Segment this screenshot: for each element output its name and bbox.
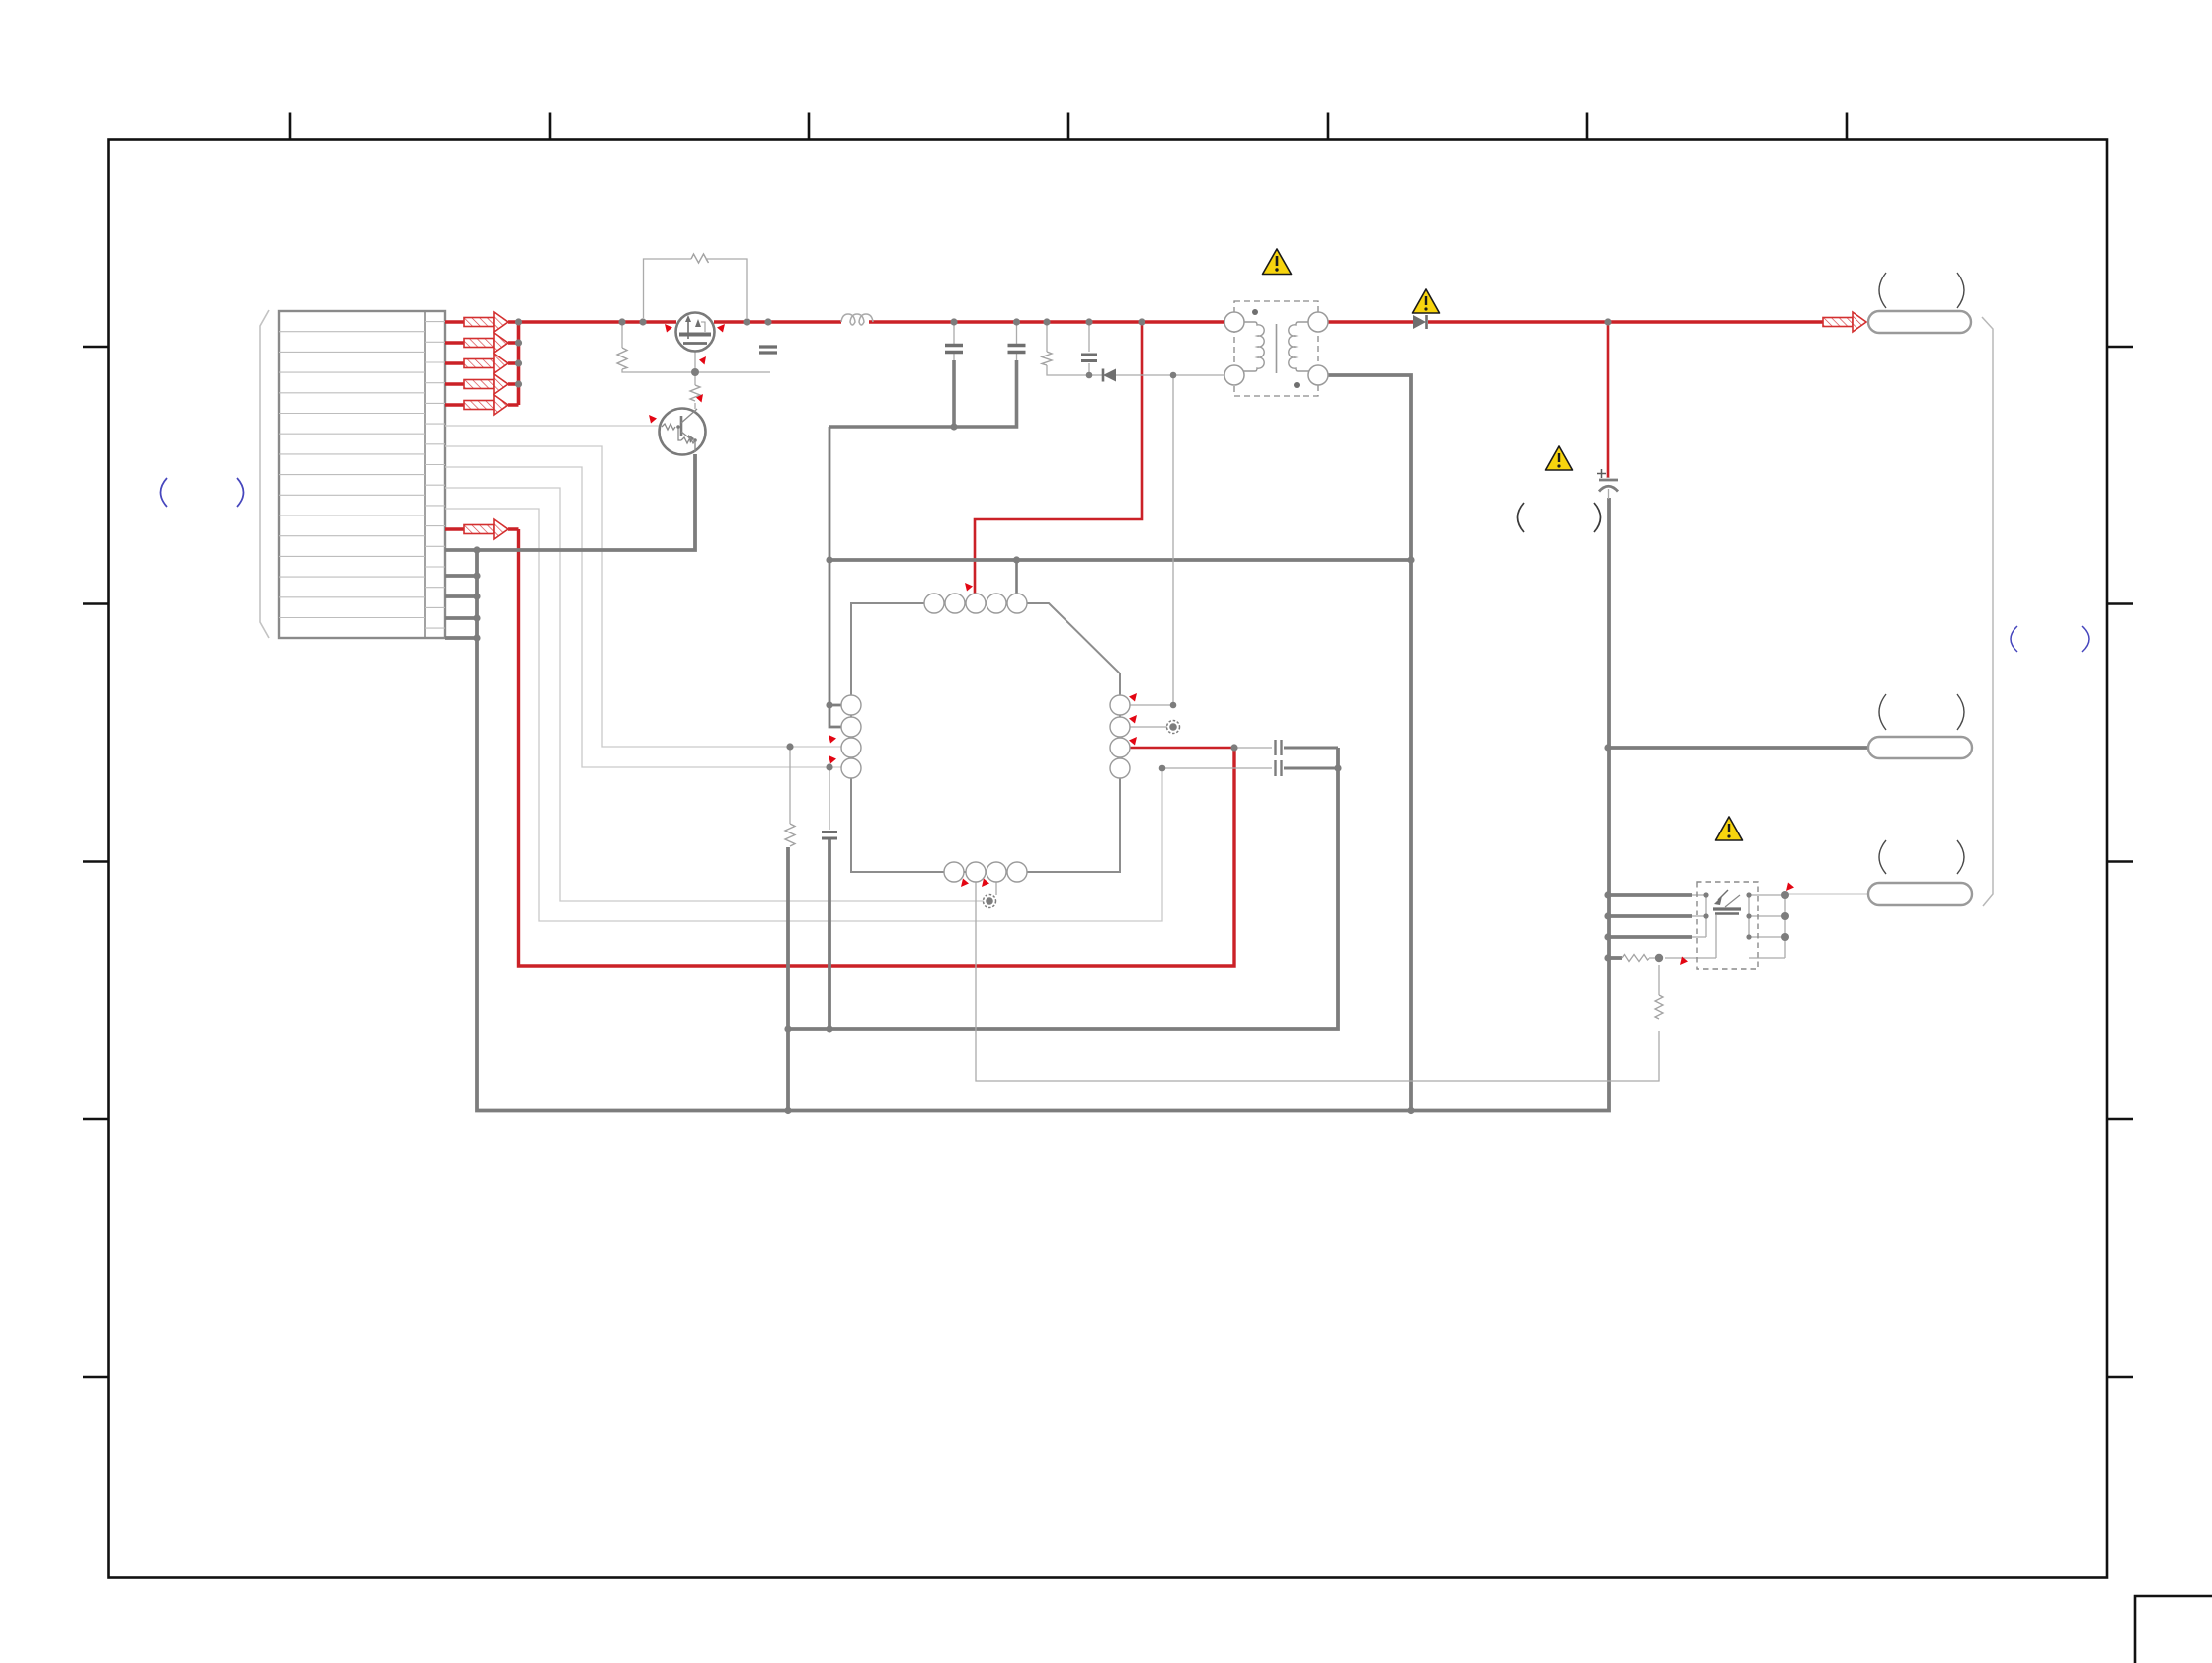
diode D output [1413, 315, 1427, 329]
resistor R top loop [691, 254, 709, 263]
wire: IC out caps row4 [1162, 767, 1272, 769]
red hatched arrow at output pill1 [1823, 312, 1866, 332]
wire: left IC feed vertical [829, 427, 841, 727]
optocoupler U2 [1697, 882, 1758, 969]
resistor R gate pull-down left [617, 348, 627, 369]
wire: opto input stubs [1608, 895, 1692, 937]
wire: IC out caps row3 [1234, 747, 1272, 749]
wire: red bottom feedback loop [519, 529, 1235, 966]
wire: clamp cap leads [1088, 324, 1090, 375]
wire: transformer secondary return vertical [1328, 375, 1411, 1111]
output pill terminal 1 [1868, 311, 1971, 333]
gray signal fan-out from connector [445, 426, 1162, 921]
resistor R opto lower [1655, 995, 1663, 1019]
wire: red IC right pin3 link [1130, 747, 1234, 750]
tick marks top border [290, 113, 1847, 140]
capacitor C out row3 [1276, 740, 1282, 755]
wire: red branch to IC top pin [975, 322, 1142, 594]
wire: row to test point [445, 488, 984, 901]
warning triangle near transformer [1263, 249, 1292, 275]
wire: opto lower resistor leads [1658, 965, 1660, 995]
wire: red branch to output cap [1607, 322, 1610, 478]
capacitor C in1 [945, 346, 963, 353]
connector pin column divider [424, 311, 426, 638]
warning triangle near optocoupler [1716, 817, 1743, 840]
inductor L1 [841, 314, 873, 325]
wire: connector row to transistor emitter [445, 454, 695, 550]
wire: snubber resistor lower lead [786, 847, 790, 1111]
wire: gate node line [622, 324, 770, 409]
connector body [279, 311, 445, 638]
transistor Q2 digital [660, 409, 706, 455]
wire: IC left pin1 stub [829, 704, 841, 707]
red power rail net [445, 322, 1829, 966]
wire: opto resistor link [1649, 957, 1716, 959]
tick marks right border [2107, 347, 2133, 1377]
wire: opto resistor stub [1608, 956, 1622, 960]
dark ground distribution net [445, 360, 1868, 1111]
output pill terminal 3 [1868, 883, 1972, 905]
wire: main red rail segments [519, 320, 677, 324]
arc pair above pill3 [1879, 840, 1964, 874]
wire: input cap1 leads [953, 324, 955, 360]
capacitor C in2 [1008, 346, 1026, 353]
capacitor C clamp [1081, 355, 1097, 361]
connector left guide bracket [260, 310, 269, 638]
connector row dividers right column [425, 322, 445, 628]
MOSFET Q1 [676, 313, 715, 352]
resistor R opto series [1622, 955, 1649, 962]
title block corner box bottom-right [2135, 1596, 2212, 1663]
wire: connector ground stubs [445, 576, 477, 638]
red hatched arrow row 6 [464, 519, 508, 539]
wire: ground bus down left [477, 498, 1609, 1111]
connector J1 [260, 310, 445, 638]
wire: red low-side pin row [445, 527, 519, 530]
red hatched arrows rows 1-5 [464, 312, 1866, 539]
IC U1 pin circles [841, 594, 1130, 882]
transformer T1 [1224, 301, 1328, 396]
wire: snubber cap lower lead [828, 839, 831, 1029]
arc pair above pill2 [1879, 694, 1964, 730]
wire: output pill2 feed [1608, 746, 1868, 750]
border frame [109, 140, 2108, 1578]
wire: input cap ground link [829, 360, 1017, 427]
wire: IC bottom pin2 long sense [976, 882, 1659, 1081]
diode D clamp left-pointing [1103, 369, 1116, 382]
wire: input cap1 lower lead [952, 360, 956, 427]
warning triangle near output diode [1413, 289, 1440, 313]
wire: opto to pill3 [1785, 893, 1868, 895]
wire: primary auxiliary vertical [1130, 375, 1173, 705]
output pill terminal 2 [1868, 737, 1972, 758]
blue parenthesis pair [2011, 626, 2089, 652]
warning triangle near output cap [1546, 446, 1573, 470]
wire: IC bottom pin3 stub [995, 882, 997, 895]
wire: row to transistor base [445, 425, 660, 427]
wire: input cap2 leads [1016, 324, 1018, 360]
red pin flag markers [649, 324, 1794, 965]
capacitor C gate [759, 347, 777, 353]
wire: row to IC right pin4 net [445, 509, 1162, 921]
wire: opto pins thin links [1692, 895, 1706, 937]
arc pair above pill1 [1879, 273, 1964, 308]
resistor R clamp [1042, 352, 1052, 365]
right big bracket [1982, 317, 1993, 906]
wire: opto emitter return [1715, 915, 1717, 958]
IC U1 controller outline [851, 603, 1120, 872]
capacitor C snubber [822, 832, 837, 839]
thin sense lines [622, 259, 1993, 1081]
capacitor C out row4 [1276, 760, 1282, 776]
wire: IC right pin2 to target [1130, 726, 1167, 728]
wire: snubber leads upper [790, 747, 829, 830]
wire: out caps right stubs [1284, 748, 1338, 768]
wire: mid ground rail [788, 748, 1338, 1029]
tick marks left border [83, 347, 108, 1377]
resistor R snubber [785, 824, 795, 846]
test point target right [1167, 721, 1180, 734]
polarized capacitor C out [1597, 469, 1618, 499]
test point target bottom [984, 895, 996, 908]
wire: IC top pin5 stub [1015, 560, 1018, 594]
wire: red arrow tails to bus [508, 322, 519, 405]
wire: IC top bus [829, 558, 1411, 562]
wire: gate divider loop top [644, 259, 748, 318]
wire: red collector bus vertical [517, 322, 521, 405]
wire: row to IC left pin4 [445, 467, 841, 767]
wire: red pin stubs rows 1-5 [445, 322, 464, 405]
middle parenthesis pair [1518, 503, 1601, 532]
connector row dividers left [279, 332, 425, 618]
left blue parenthesis pair [161, 478, 244, 507]
wire: row to IC left pin3 [445, 446, 841, 747]
wire: clamp resistor leads [1047, 324, 1224, 375]
resistor R gate series [690, 385, 700, 401]
